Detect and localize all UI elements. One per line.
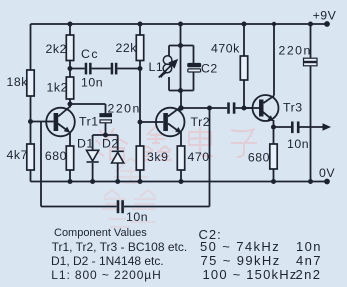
svg-text:C2: C2 xyxy=(201,62,218,76)
svg-text:D2: D2 xyxy=(102,137,119,151)
svg-text:10n: 10n xyxy=(296,239,322,254)
svg-text:2n2: 2n2 xyxy=(296,267,322,282)
svg-text:470: 470 xyxy=(188,150,210,164)
svg-text:680: 680 xyxy=(248,151,270,165)
svg-text:+9V: +9V xyxy=(313,9,337,23)
svg-text:100 ~ 150kHz: 100 ~ 150kHz xyxy=(203,267,298,282)
svg-text:Component Values: Component Values xyxy=(54,227,147,239)
svg-text:50 ~ 74kHz: 50 ~ 74kHz xyxy=(200,239,280,254)
svg-text:Tr3: Tr3 xyxy=(283,101,303,115)
svg-text:18k: 18k xyxy=(7,75,29,89)
svg-text:4n7: 4n7 xyxy=(296,253,322,268)
svg-text:10n: 10n xyxy=(287,137,309,151)
svg-text:10n: 10n xyxy=(126,210,148,224)
svg-text:3k9: 3k9 xyxy=(147,150,168,164)
svg-text:L1: L1 xyxy=(149,60,164,74)
svg-text:1k2: 1k2 xyxy=(47,81,68,95)
svg-text:75 ~ 99kHz: 75 ~ 99kHz xyxy=(201,253,281,268)
svg-text:D1: D1 xyxy=(77,137,94,151)
svg-text:2k2: 2k2 xyxy=(46,42,67,56)
svg-text:220n: 220n xyxy=(279,44,312,58)
svg-text:Cc: Cc xyxy=(81,47,99,61)
svg-text:Tr2: Tr2 xyxy=(191,115,211,129)
svg-text:680: 680 xyxy=(45,149,67,163)
svg-text:Tr1, Tr2, Tr3 - BC108 etc.: Tr1, Tr2, Tr3 - BC108 etc. xyxy=(52,240,188,254)
svg-text:D1, D2 - 1N4148 etc.: D1, D2 - 1N4148 etc. xyxy=(51,254,164,268)
svg-text:220n: 220n xyxy=(108,102,141,116)
svg-text:0V: 0V xyxy=(319,166,335,180)
svg-text:470k: 470k xyxy=(211,42,240,56)
svg-text:L1: 800 ~ 2200µH: L1: 800 ~ 2200µH xyxy=(51,268,161,282)
svg-text:4k7: 4k7 xyxy=(7,148,28,162)
svg-text:Tr1: Tr1 xyxy=(79,115,99,129)
svg-text:22k: 22k xyxy=(116,41,138,55)
svg-text:10n: 10n xyxy=(81,76,103,90)
